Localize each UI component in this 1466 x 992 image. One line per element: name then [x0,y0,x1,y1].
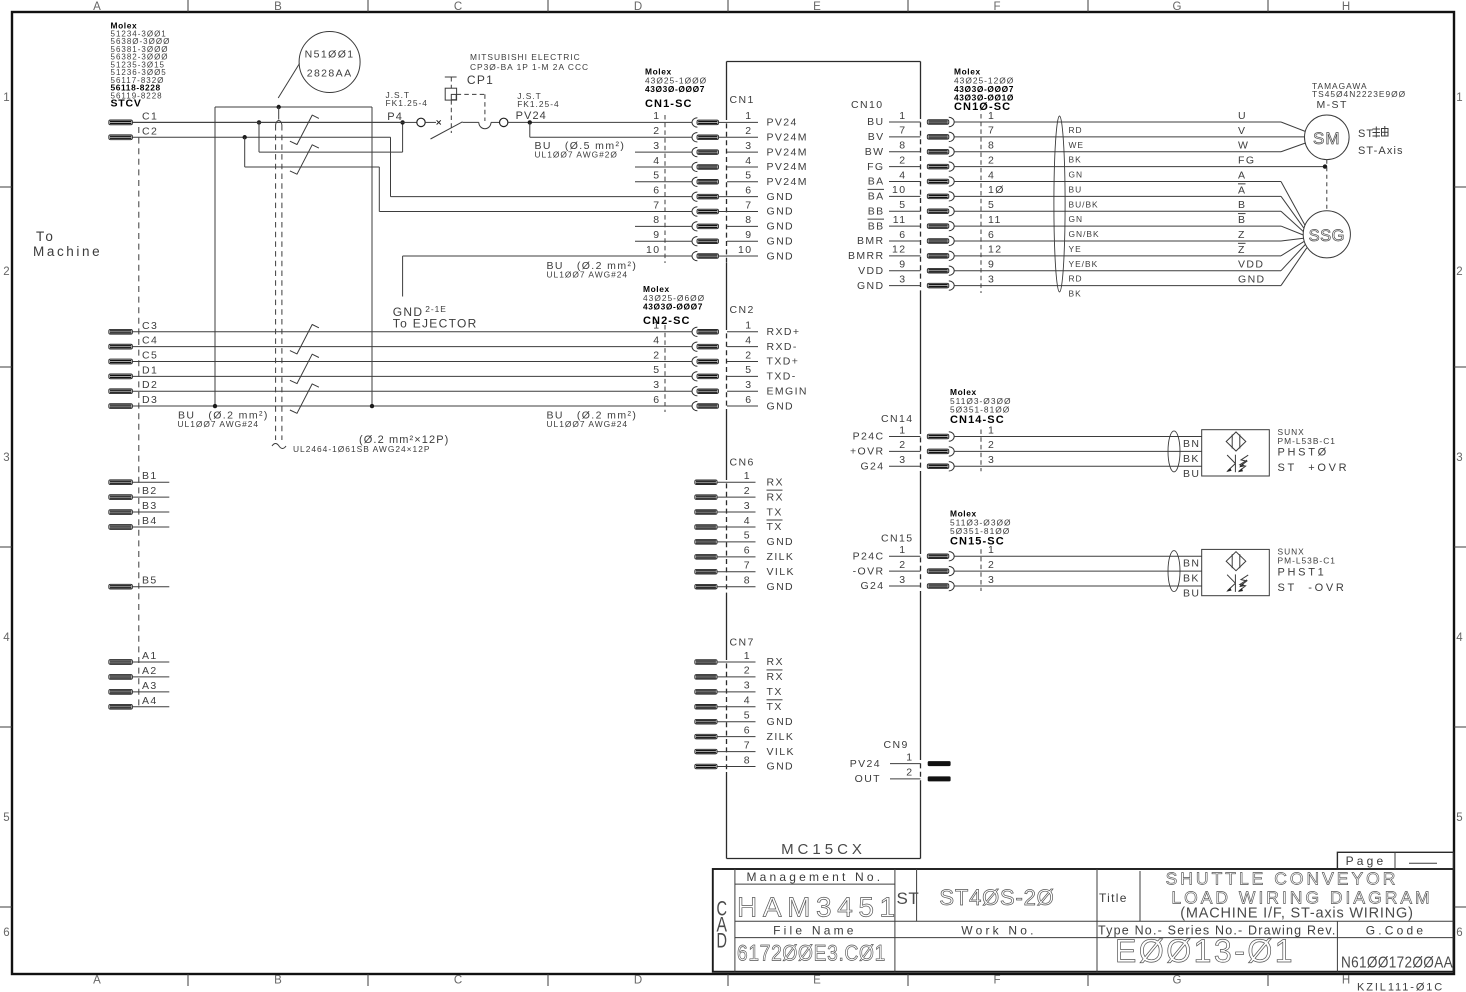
terminal D3 [109,394,692,408]
svg-text:10: 10 [646,244,660,256]
svg-text:H: H [1342,975,1350,987]
label ST axis [1358,126,1404,157]
terminal B2 [109,485,170,499]
svg-text:C4: C4 [142,335,158,347]
svg-text:PM-L53B-C1: PM-L53B-C1 [1278,556,1336,566]
terminal B3 [109,500,170,514]
svg-text:CN6: CN6 [730,457,755,469]
svg-text:B: B [274,975,282,987]
svg-text:GND: GND [767,250,795,262]
svg-text:BN: BN [1183,558,1200,570]
svg-text:6: 6 [745,394,752,406]
svg-text:4: 4 [745,334,752,346]
label SUNX sensor PHST0 [1278,427,1350,474]
svg-text:G.Code: G.Code [1366,923,1427,937]
wire Z diagonal into SSG [1281,241,1304,255]
svg-text:BU: BU [1183,588,1200,600]
label BU 0.2mm UL1007 AWG#24 (CN1 GND) [547,260,638,280]
svg-text:2: 2 [899,559,906,571]
svg-text:7: 7 [653,199,660,211]
wire color labels CN15 BN BK BU [1183,558,1200,600]
svg-text:B2: B2 [142,485,158,497]
svg-text:RX: RX [767,476,784,488]
svg-text:TS45Ø4N2223E9ØØ: TS45Ø4N2223E9ØØ [1312,89,1406,99]
svg-text:1Ø: 1Ø [988,184,1005,196]
terminal B4 [109,515,170,529]
svg-text:CN7: CN7 [730,637,755,649]
breaker CP1 contact and blade [425,118,692,139]
twisted pair mark [290,354,319,383]
label Molex part numbers CN2-SC [643,284,705,327]
svg-text:12: 12 [988,244,1002,256]
svg-text:5: 5 [653,170,660,182]
svg-text:12: 12 [892,244,906,256]
svg-text:P24C: P24C [853,550,885,562]
svg-text:A3: A3 [142,680,158,692]
label Molex part numbers CN1-SC [645,67,707,111]
svg-text:BW: BW [865,146,885,158]
svg-text:BA: BA [868,191,885,203]
svg-text:RX: RX [767,491,784,503]
svg-text:D: D [717,930,728,953]
svg-text:BU/BK: BU/BK [1069,199,1099,209]
svg-text:3: 3 [988,574,995,586]
svg-text:FG: FG [1238,155,1255,167]
svg-text:4: 4 [744,695,751,707]
svg-text:V: V [1238,125,1246,137]
svg-text:6: 6 [899,229,906,241]
svg-text:YE: YE [1069,244,1082,254]
controller box MC15CX [727,62,921,859]
svg-text:8: 8 [988,140,995,152]
title block [713,869,1454,972]
svg-text:D1: D1 [142,364,158,376]
svg-text:GND: GND [767,761,795,773]
svg-text:PHSTØ: PHSTØ [1278,447,1329,459]
twisted pair mark [290,115,319,144]
svg-text:GND: GND [767,536,795,548]
svg-text:A: A [1238,184,1246,196]
svg-text:7: 7 [744,560,751,572]
wire VDD diagonal into SSG [1281,245,1305,271]
svg-text:1: 1 [745,110,752,122]
svg-text:Z: Z [1238,244,1246,256]
photo sensor PHST0 [1202,430,1270,476]
svg-text:8: 8 [653,214,660,226]
svg-text:GND: GND [767,400,795,412]
wire C1 return conductor [259,122,403,152]
svg-text:ST: ST [1358,128,1374,140]
svg-text:ST +OVR: ST +OVR [1278,462,1350,474]
svg-text:PV24M: PV24M [767,161,808,173]
svg-text:2: 2 [745,349,752,361]
svg-text:CN1: CN1 [730,94,755,106]
svg-text:C2: C2 [142,125,158,137]
cable bundle oval CN10 [1054,116,1065,292]
svg-text:1: 1 [744,650,751,662]
svg-text:2: 2 [899,439,906,451]
svg-text:4: 4 [899,169,906,181]
svg-text:9: 9 [988,259,995,271]
wire B diagonal into SSG [1281,211,1304,232]
terminal A1 [109,650,170,664]
wire A diagonal into SSG [1281,196,1304,228]
svg-text:11: 11 [893,214,907,226]
svg-text:4: 4 [653,155,660,167]
balloon N51001 2828AA [278,32,360,99]
svg-text:CN1Ø-SC: CN1Ø-SC [954,101,1011,113]
terminal B5 [109,575,170,589]
wire vertical rail x=372 [371,107,373,406]
svg-text:A: A [93,1,101,13]
svg-text:Z: Z [1238,229,1246,241]
svg-text:2: 2 [988,439,995,451]
terminal P4 labels [386,90,428,123]
svg-text:CN10: CN10 [851,99,883,111]
svg-text:UL2464-1Ø61SB AWG24×12P: UL2464-1Ø61SB AWG24×12P [293,444,430,454]
svg-text:1: 1 [906,751,913,763]
svg-text:C: C [454,1,462,13]
svg-text:1: 1 [745,320,752,332]
svg-text:3: 3 [988,273,995,285]
svg-text:B: B [274,1,282,13]
svg-text:U: U [1238,110,1247,122]
svg-text:11: 11 [988,214,1002,226]
svg-text:GND: GND [767,235,795,247]
junction dot PV24 [528,120,532,124]
svg-text:3: 3 [3,452,9,464]
svg-text:C3: C3 [142,320,158,332]
svg-text:4: 4 [744,515,751,527]
svg-text:P24C: P24C [853,431,885,443]
svg-text:43Ø3Ø-ØØØ7: 43Ø3Ø-ØØØ7 [645,84,705,94]
machine type ST [897,885,1055,910]
terminal A2 [109,665,170,679]
svg-text:CN14: CN14 [881,413,913,425]
svg-text:3: 3 [899,574,906,586]
svg-text:10: 10 [738,244,752,256]
svg-text:BK: BK [1183,453,1200,465]
junction FG node [1323,164,1327,168]
svg-text:5Ø351-81ØØ: 5Ø351-81ØØ [950,405,1010,415]
svg-text:CN2: CN2 [730,304,755,316]
svg-text:A: A [93,975,101,987]
svg-text:GN: GN [1069,214,1084,224]
svg-text:RD: RD [1069,274,1083,284]
svg-text:5Ø351-81ØØ: 5Ø351-81ØØ [950,526,1010,536]
terminal D2 [109,379,692,393]
wire stub to cable top [278,107,280,120]
svg-text:PV24: PV24 [767,117,798,129]
svg-text:B: B [1238,199,1246,211]
svg-text:1: 1 [988,424,995,436]
type/series/drawing rev [1098,923,1337,969]
label BU 0.2mm UL1007 AWG#24 (left) [178,410,269,430]
svg-text:2: 2 [744,485,751,497]
svg-text:8: 8 [744,754,751,766]
svg-text:F: F [993,1,1000,13]
connector CN10 (12 pins) [848,99,1281,293]
svg-text:RXD-: RXD- [767,341,798,353]
terminal C4 [109,335,692,349]
svg-text:Work No.: Work No. [961,923,1036,937]
connector CN2 (6 pins) [653,304,808,412]
svg-text:TXD-: TXD- [767,371,797,383]
svg-text:4: 4 [745,155,752,167]
svg-text:RXD+: RXD+ [767,326,801,338]
label Molex part numbers CN14-SC [950,387,1012,426]
wire FG to motor frame [954,166,1325,168]
wire CN1 pin10 GND to ejector [403,256,692,296]
svg-text:5: 5 [899,199,906,211]
label MITSUBISHI ELECTRIC CP30-BA [467,52,589,87]
label Molex part numbers CN15-SC [950,509,1012,548]
wire color labels CN14 BN BK BU [1183,438,1200,480]
svg-text:7: 7 [988,125,995,137]
label BU 0.2mm UL1007 AWG#24 (CN2) [547,410,638,430]
svg-text:3: 3 [745,140,752,152]
svg-text:PV24: PV24 [850,758,881,770]
svg-text:A4: A4 [142,695,158,707]
svg-text:D3: D3 [142,394,158,406]
svg-text:G: G [1173,975,1182,987]
svg-text:CN9: CN9 [884,739,909,751]
wire A diagonal into SSG [1281,181,1305,225]
svg-text:8: 8 [744,575,751,587]
svg-text:6: 6 [988,229,995,241]
cable oval CN14 [1168,431,1180,472]
label Molex part numbers CN10-SC [954,67,1014,114]
svg-text:B4: B4 [142,515,158,527]
svg-text:5: 5 [3,812,9,824]
svg-text:B5: B5 [142,575,158,587]
svg-text:BK: BK [1183,573,1200,585]
svg-text:E: E [813,975,821,987]
svg-text:BMR: BMR [857,235,885,247]
svg-text:HAM3451: HAM3451 [737,892,901,923]
svg-text:UL1ØØ7 AWG#24: UL1ØØ7 AWG#24 [547,270,629,280]
dashed link SM to SSG [1326,160,1328,211]
page box [1337,852,1453,869]
wire W diagonal into SM [1281,143,1306,152]
svg-text:43Ø3Ø-ØØØ7: 43Ø3Ø-ØØØ7 [643,302,703,312]
svg-text:5: 5 [744,530,751,542]
svg-text:ST: ST [897,889,920,908]
svg-text:4: 4 [1456,632,1463,644]
svg-text:PV24M: PV24M [767,146,808,158]
svg-text:MC15CX: MC15CX [781,841,866,858]
svg-text:5: 5 [745,364,752,376]
wire Z diagonal into SSG [1281,238,1304,241]
svg-text:2: 2 [653,349,660,361]
junction dot D3 x=372 [370,404,374,408]
svg-text:GND: GND [767,206,795,218]
connector CN6 (8 pins) [695,457,795,593]
wire CN14 pin 1 to sensor [954,436,1201,438]
svg-text:6: 6 [653,394,660,406]
svg-text:6: 6 [653,184,660,196]
svg-text:PV24: PV24 [516,110,547,122]
svg-text:Management No.: Management No. [746,870,883,884]
svg-text:+OVR: +OVR [850,446,885,458]
svg-text:N61ØØ172ØØAA: N61ØØ172ØØAA [1341,955,1453,972]
svg-text:2: 2 [899,154,906,166]
svg-text:RX: RX [767,656,784,668]
svg-text:3: 3 [744,500,751,512]
connector CN9 (2 pins) [850,739,951,785]
svg-text:GND: GND [767,221,795,233]
svg-text:5: 5 [988,199,995,211]
svg-text:RD: RD [1069,125,1083,135]
svg-text:GN/BK: GN/BK [1069,229,1100,239]
svg-text:TX: TX [767,686,783,698]
svg-text:2: 2 [988,154,995,166]
svg-text:8: 8 [745,214,752,226]
svg-text:TX: TX [767,701,783,713]
connector CN15 (3 pins) [853,533,1202,593]
wire PV24 branch to CN1 pin2 [530,122,692,137]
twisted pair mark [290,325,319,354]
svg-text:UL1ØØ7 AWG#24: UL1ØØ7 AWG#24 [178,419,260,429]
svg-text:4: 4 [988,169,995,181]
svg-text:Page: Page [1346,854,1387,868]
junction dot P4 [400,120,404,124]
terminal A3 [109,680,170,694]
svg-text:5: 5 [745,170,752,182]
svg-text:(MACHINE I/F, ST-axis WIRING): (MACHINE I/F, ST-axis WIRING) [1180,906,1413,922]
wire vertical rail x=215 [214,107,216,406]
wire CN15 pin 3 to sensor [954,585,1201,587]
svg-text:GND: GND [1238,274,1266,286]
wire C2 conductor to CN1 pin6 [391,137,692,196]
label SUNX sensor PHST1 [1278,547,1347,594]
svg-text:3: 3 [1456,452,1462,464]
multicore cable UL2464 [272,120,286,448]
wire CN15 pin 2 to sensor [954,570,1201,572]
management number [737,870,901,923]
svg-text:ST -OVR: ST -OVR [1278,582,1347,594]
svg-text:CN15-SC: CN15-SC [950,536,1005,548]
svg-text:D2: D2 [142,379,158,391]
photo sensor PHST1 [1202,549,1270,595]
svg-text:5: 5 [744,710,751,722]
svg-text:1: 1 [1456,92,1462,104]
svg-text:BA: BA [868,176,885,188]
twisted pair mark [290,145,319,174]
svg-text:GND: GND [767,581,795,593]
wire C1 to P4 [132,121,402,123]
connector CN7 (8 pins) [695,637,795,773]
svg-text:G24: G24 [860,461,884,473]
svg-text:5: 5 [1456,812,1462,824]
svg-text:CN14-SC: CN14-SC [950,414,1005,426]
svg-text:STCV: STCV [111,98,142,110]
svg-text:9: 9 [745,229,752,241]
svg-text:PV24M: PV24M [767,176,808,188]
svg-text:BN: BN [1183,438,1200,450]
svg-text:3: 3 [653,140,660,152]
svg-text:E: E [813,1,821,13]
svg-text:SHUTTLE CONVEYOR: SHUTTLE CONVEYOR [1166,869,1399,889]
svg-text:G24: G24 [860,580,884,592]
svg-text:UL1ØØ7 AWG#2Ø: UL1ØØ7 AWG#2Ø [535,150,618,160]
svg-text:B: B [1238,214,1246,226]
svg-text:7: 7 [744,739,751,751]
svg-text:2: 2 [3,266,9,278]
svg-text:BU: BU [867,116,884,128]
label GND 2-1E To EJECTOR [393,304,478,331]
svg-text:P4: P4 [387,111,403,123]
svg-text:A1: A1 [142,650,158,662]
svg-text:PV24M: PV24M [767,131,808,143]
label BU 0.5mm UL1007 AWG#20 [535,140,626,160]
svg-text:To EJECTOR: To EJECTOR [393,317,478,331]
svg-text:9: 9 [899,259,906,271]
svg-text:BU: BU [1183,468,1200,480]
svg-text:TX: TX [767,521,783,533]
svg-text:1: 1 [899,544,906,556]
svg-text:BB: BB [868,220,885,232]
svg-text:4: 4 [3,632,10,644]
svg-text:A2: A2 [142,665,158,677]
svg-text:FG: FG [867,161,884,173]
svg-text:BU: BU [1069,184,1083,194]
connector CN1 (10 pins) [635,94,808,263]
svg-text:VDD: VDD [1238,259,1264,271]
breaker CP1 mechanism [445,77,485,133]
wire top rail y=107 [215,106,372,108]
svg-text:6: 6 [744,545,751,557]
svg-text:ST-Axis: ST-Axis [1358,145,1404,157]
wire CN14 pin 3 to sensor [954,465,1201,467]
svg-text:6: 6 [1456,927,1462,939]
svg-text:VILK: VILK [767,566,795,578]
svg-text:2-1E: 2-1E [425,304,447,314]
svg-text:WE: WE [1069,140,1085,150]
svg-text:BMRR: BMRR [848,250,885,262]
terminal C2 [109,125,391,139]
motor SM (ST axis) [1305,115,1350,160]
svg-text:2: 2 [906,767,913,779]
svg-text:1: 1 [653,110,660,122]
svg-text:2: 2 [653,125,660,137]
svg-text:5: 5 [653,364,660,376]
svg-text:A: A [1238,169,1246,181]
dashed machine boundary line [138,127,140,710]
svg-text:TXD+: TXD+ [767,356,800,368]
wire U diagonal into SM [1281,122,1306,132]
svg-text:C: C [454,975,462,987]
svg-text:BV: BV [868,131,885,143]
svg-text:W: W [1238,140,1249,152]
svg-text:9: 9 [653,229,660,241]
svg-text:UL1ØØ7 AWG#24: UL1ØØ7 AWG#24 [547,419,629,429]
wire V to motor SM [954,136,1304,138]
svg-text:4: 4 [653,334,660,346]
svg-text:File Name: File Name [773,923,856,937]
terminal C5 [109,350,692,364]
svg-text:-OVR: -OVR [853,565,885,577]
svg-text:VILK: VILK [767,746,795,758]
svg-text:3: 3 [899,454,906,466]
svg-text:7: 7 [899,125,906,137]
connector CN14 (3 pins) [850,413,1202,473]
file name [737,923,886,965]
svg-text:Machine: Machine [33,244,102,259]
wire C2 second conductor to CN1 pin7 [245,137,692,211]
svg-text:ZILK: ZILK [767,551,795,563]
wire CN15 pin 1 to sensor [954,555,1201,557]
